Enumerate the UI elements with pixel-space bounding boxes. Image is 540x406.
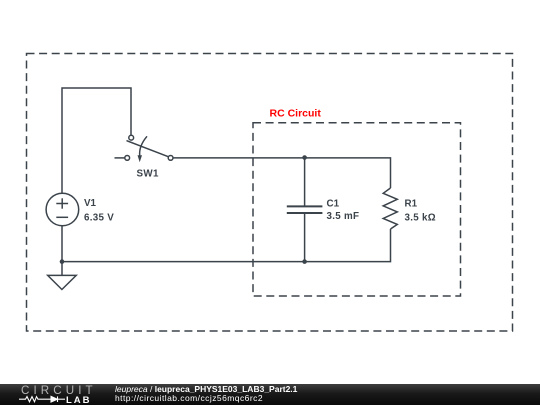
wire: V1 bottom lead — [61, 226, 63, 262]
svg-text:V1: V1 — [84, 198, 97, 209]
resistor R1 zigzag — [383, 188, 397, 229]
node junction dot at bottom rail / capacitor — [302, 259, 307, 264]
outer dashed enclosure box — [27, 54, 513, 332]
svg-text:6.35 V: 6.35 V — [84, 213, 114, 224]
svg-text:C1: C1 — [327, 199, 340, 210]
capacitor C1 — [287, 206, 323, 213]
node junction dot at ground — [60, 259, 65, 264]
svg-text:SW1: SW1 — [137, 169, 159, 180]
voltage source V1 — [46, 193, 79, 226]
node junction dot at top rail / capacitor — [302, 155, 307, 160]
logo wire-diode squiggle — [0, 384, 100, 405]
ground symbol — [48, 262, 76, 290]
wire: bottom rail — [62, 229, 391, 262]
wire: capacitor bottom lead — [304, 213, 306, 261]
wire: capacitor top lead — [304, 158, 306, 206]
svg-text:3.5 kΩ: 3.5 kΩ — [405, 213, 436, 224]
wire: switch output to resistor top — [173, 158, 391, 188]
footer black bar — [0, 384, 540, 405]
wire: V1 top to switch pole — [62, 88, 131, 193]
RC Circuit dashed box — [253, 123, 461, 296]
svg-text:R1: R1 — [405, 199, 418, 210]
footer text — [115, 385, 297, 403]
svg-text:RC Circuit: RC Circuit — [270, 108, 322, 120]
svg-text:3.5 mF: 3.5 mF — [327, 211, 360, 222]
switch SW1 — [125, 135, 173, 162]
wire: switch unused throw stub — [115, 157, 125, 159]
CircuitLab logo — [0, 384, 100, 405]
